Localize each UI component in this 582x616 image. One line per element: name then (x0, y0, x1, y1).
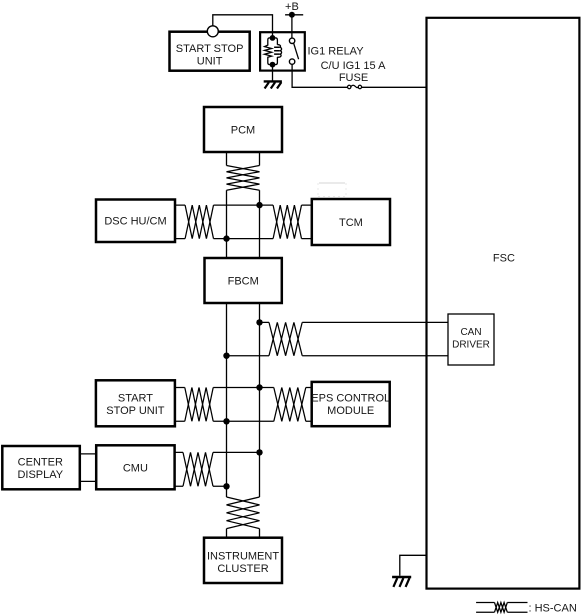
node junction dot DSC bottom (223, 235, 229, 241)
node +B junction dot (289, 12, 295, 18)
wire relay switch to fuse (292, 63, 347, 87)
twisted pair CMU (183, 452, 213, 486)
wire pair START STOP UNIT to EPS CONTROL MODULE (175, 387, 312, 389)
svg-text:FBCM: FBCM (228, 276, 259, 288)
relay switch contacts (289, 38, 298, 64)
node junction dot CAN bottom (223, 353, 229, 359)
twisted pair TCM (273, 205, 301, 239)
wire relay coil to ground (272, 65, 274, 81)
node junction dot CMU top (256, 449, 262, 455)
svg-text:PCM: PCM (231, 125, 255, 137)
module EPS CONTROL MODULE box (312, 382, 390, 426)
svg-text:C/U IG1 15 A: C/U IG1 15 A (321, 60, 386, 72)
legend twisted pair symbol (476, 603, 527, 613)
svg-text:CMU: CMU (123, 462, 148, 474)
module START STOP UNIT (top) box (170, 32, 250, 71)
twisted pair DSC HU/CM (185, 205, 213, 239)
module CAN DRIVER box (448, 314, 494, 365)
svg-text:FUSE: FUSE (339, 72, 368, 84)
svg-text:INSTRUMENT: INSTRUMENT (207, 551, 279, 563)
module DSC HU/CM box (96, 200, 175, 243)
ground (FSC) (392, 577, 411, 587)
svg-text:MODULE: MODULE (327, 405, 374, 417)
ground (relay) (264, 81, 282, 88)
module START STOP UNIT (lower) box (96, 380, 175, 426)
node relay coil top dot (270, 35, 276, 41)
label CENTER DISPLAY (17, 457, 63, 482)
module FSC box (427, 18, 580, 589)
svg-text:DSC HU/CM: DSC HU/CM (104, 216, 166, 228)
wire pair trunk to CAN DRIVER (260, 321, 449, 323)
module CENTER DISPLAY box (2, 446, 80, 489)
svg-text:CAN: CAN (460, 327, 481, 338)
wire HS-CAN trunk right (259, 190, 261, 497)
label CAN DRIVER (452, 327, 490, 351)
module INSTRUMENT CLUSTER box (204, 538, 282, 583)
faint ghost artifact above TCM (318, 183, 346, 197)
svg-text:FSC: FSC (493, 253, 515, 265)
wire FSC to ground (400, 555, 427, 576)
wire from relay coil to start stop unit connector (213, 15, 273, 38)
label START STOP UNIT (lower) (106, 392, 165, 417)
twisted pair CAN DRIVER (269, 322, 302, 355)
module CMU box (96, 445, 174, 489)
svg-text:START STOP: START STOP (176, 43, 244, 55)
twisted pair EPS (274, 388, 306, 422)
node junction dot CMU bottom (223, 483, 229, 489)
node junction dot CAN top (256, 319, 262, 325)
wire pair DSC HU/CM to TCM (175, 204, 312, 206)
svg-text:STOP UNIT: STOP UNIT (106, 405, 165, 417)
wire pair CMU to trunk (175, 451, 260, 453)
svg-text:CENTER: CENTER (18, 457, 63, 469)
wire fuse to FSC (362, 86, 427, 88)
node junction dot SSU top (256, 384, 262, 390)
wire twisted pair to INSTRUMENT CLUSTER (227, 529, 260, 538)
wire +B to relay switch (291, 15, 293, 40)
relay box outline (260, 32, 305, 70)
svg-text:+B: +B (285, 1, 299, 13)
svg-text:START: START (118, 392, 153, 404)
svg-text:CLUSTER: CLUSTER (217, 563, 268, 575)
label START STOP UNIT (top) (176, 43, 244, 68)
module TCM box (312, 199, 390, 245)
node junction dot DSC top (256, 202, 262, 208)
+B supply bar (285, 14, 303, 16)
svg-text:DISPLAY: DISPLAY (17, 469, 63, 481)
twisted pair START STOP UNIT (185, 388, 213, 422)
label INSTRUMENT CLUSTER (207, 551, 279, 576)
node junction dot SSU bottom (223, 418, 229, 424)
label EPS CONTROL MODULE (311, 392, 390, 417)
svg-text:IG1 RELAY: IG1 RELAY (308, 46, 365, 58)
module PCM box (204, 107, 282, 152)
svg-text:DRIVER: DRIVER (452, 339, 490, 350)
twisted pair below PCM (227, 166, 260, 191)
wire HS-CAN trunk left (226, 190, 228, 497)
relay coil loop with resistor (265, 38, 282, 65)
svg-text:TCM: TCM (339, 217, 363, 229)
fuse C/U IG1 15A (348, 85, 362, 88)
wire PCM to twisted pair (227, 152, 260, 166)
twisted pair above INSTRUMENT CLUSTER (227, 497, 260, 529)
svg-text:EPS CONTROL: EPS CONTROL (311, 392, 390, 404)
svg-text:: HS-CAN: : HS-CAN (529, 602, 577, 614)
module FBCM box (205, 258, 282, 303)
node relay coil bottom dot (270, 62, 276, 68)
connector circle on START STOP UNIT (207, 26, 218, 37)
wire pair CENTER DISPLAY to CMU (80, 454, 97, 482)
svg-text:UNIT: UNIT (197, 55, 223, 67)
